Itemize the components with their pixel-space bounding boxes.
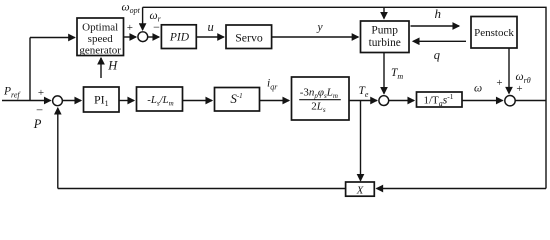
svg-text:h: h — [435, 6, 442, 21]
svg-text:Te: Te — [359, 85, 369, 99]
svg-text:-3npφsLm: -3npφsLm — [300, 87, 338, 100]
svg-text:−: − — [153, 20, 160, 34]
svg-text:generator: generator — [79, 44, 121, 56]
svg-text:u: u — [208, 20, 214, 34]
svg-text:−: − — [36, 103, 43, 117]
svg-text:turbine: turbine — [369, 37, 401, 49]
svg-text:Pump: Pump — [371, 25, 398, 37]
svg-text:Optimal: Optimal — [82, 22, 118, 34]
svg-text:ωopt: ωopt — [122, 2, 141, 15]
svg-text:Tm: Tm — [391, 67, 403, 81]
svg-text:Servo: Servo — [235, 31, 263, 45]
svg-text:+: + — [516, 83, 522, 95]
svg-text:P: P — [33, 117, 42, 131]
svg-text:ω: ω — [474, 83, 482, 95]
svg-text:Pref: Pref — [3, 86, 21, 100]
svg-text:+: + — [496, 77, 502, 89]
svg-text:PID: PID — [169, 31, 190, 43]
svg-text:q: q — [434, 48, 440, 62]
svg-text:H: H — [107, 58, 118, 72]
svg-text:Penstock: Penstock — [474, 27, 514, 39]
svg-text:+: + — [127, 22, 133, 34]
svg-text:+: + — [38, 87, 44, 99]
svg-text:y: y — [317, 22, 324, 34]
svg-text:X: X — [356, 184, 364, 196]
svg-text:iqr: iqr — [267, 78, 278, 92]
svg-text:speed: speed — [88, 33, 114, 45]
